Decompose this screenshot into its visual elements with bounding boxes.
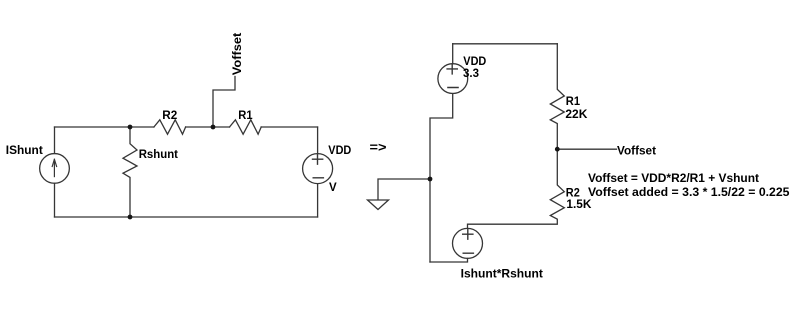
svg-text:22K: 22K (565, 109, 588, 121)
svg-text:IShunt: IShunt (6, 145, 43, 157)
svg-text:R1: R1 (238, 110, 253, 122)
svg-text:Voffset: Voffset (617, 146, 656, 158)
svg-text:1.5K: 1.5K (566, 199, 592, 211)
svg-text:VDD: VDD (328, 145, 351, 157)
svg-text:Voffset: Voffset (232, 33, 244, 76)
svg-text:R2: R2 (566, 187, 580, 199)
svg-text:Ishunt*Rshunt: Ishunt*Rshunt (461, 268, 543, 280)
svg-text:Voffset = VDD*R2/R1 + Vshunt: Voffset = VDD*R2/R1 + Vshunt (588, 173, 759, 185)
svg-text:Voffset added = 3.3 * 1.5/22 =: Voffset added = 3.3 * 1.5/22 = 0.225 (588, 187, 790, 199)
svg-text:Rshunt: Rshunt (139, 149, 178, 161)
svg-text:R2: R2 (162, 110, 177, 122)
svg-text:R1: R1 (566, 96, 581, 108)
svg-text:=>: => (370, 140, 387, 155)
svg-text:VDD: VDD (463, 56, 486, 68)
svg-text:3.3: 3.3 (463, 68, 479, 80)
svg-text:V: V (329, 182, 337, 194)
